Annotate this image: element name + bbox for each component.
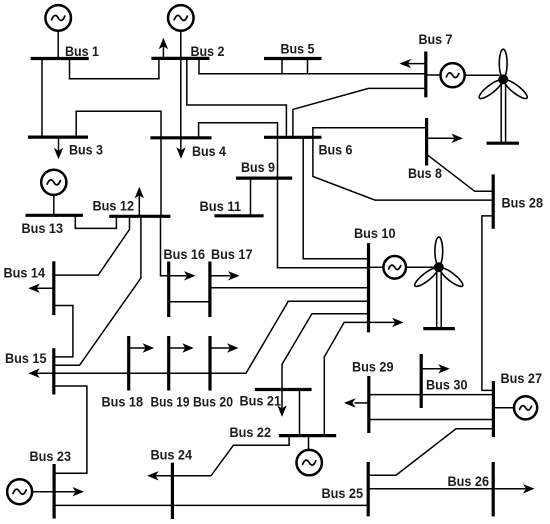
bus bar 7 — [424, 52, 427, 98]
load arrow bus 23 — [73, 487, 85, 496]
svg-text:Bus 17: Bus 17 — [211, 247, 253, 263]
wire 25-27 — [368, 429, 493, 475]
wire 12-15 — [54, 216, 141, 365]
bus bar 19 — [167, 336, 170, 391]
wire 3-4 and 4-12 — [76, 111, 161, 216]
wind turbine 2 — [413, 237, 465, 329]
svg-text:Bus 9: Bus 9 — [241, 160, 275, 176]
bus bar 18 — [127, 336, 130, 391]
wire 16-17 — [169, 301, 210, 303]
svg-text:Bus 27: Bus 27 — [501, 371, 543, 387]
bus bar 16 — [167, 262, 170, 318]
wire 15-18-19-20-10 — [37, 301, 369, 373]
svg-text:Bus 1: Bus 1 — [65, 44, 99, 60]
generator G10 — [383, 256, 406, 279]
bus bar 20 — [208, 336, 211, 391]
svg-text:Bus 8: Bus 8 — [408, 166, 442, 182]
bus bar 25 — [367, 462, 370, 516]
wire 27-28 — [482, 216, 494, 391]
wire 15-23 — [54, 386, 87, 473]
wire 10-22 — [324, 322, 395, 435]
wire bus5 stub right — [307, 59, 309, 74]
svg-text:Bus 13: Bus 13 — [22, 221, 64, 237]
load arrow bus 10 — [392, 318, 404, 327]
load arrow bus 8 — [427, 134, 463, 143]
wire G23 to bus23 load — [32, 491, 75, 493]
bus bar 22 — [279, 434, 336, 437]
load arrow bus 2 — [159, 38, 168, 59]
svg-text:Bus 19: Bus 19 — [151, 395, 190, 411]
load arrow bus 4 — [176, 147, 185, 159]
generator G22 — [297, 450, 322, 475]
svg-text:Bus 10: Bus 10 — [354, 226, 396, 242]
bus bar 13 — [26, 214, 83, 217]
wire 2-4 — [180, 31, 182, 151]
bus bar 30 — [420, 354, 423, 408]
wire 25-26 — [368, 488, 526, 490]
wire 2-5-7 trunk — [199, 58, 426, 73]
svg-text:Bus 3: Bus 3 — [69, 143, 103, 159]
bus bar 1 — [31, 57, 89, 60]
wire G13 stem — [53, 195, 55, 216]
svg-text:Bus 28: Bus 28 — [502, 196, 544, 212]
bus bar 5 — [264, 57, 322, 60]
generator G23 — [7, 479, 32, 504]
load arrow bus 18 — [129, 343, 154, 352]
svg-text:Bus 14: Bus 14 — [4, 266, 46, 282]
svg-text:Bus 16: Bus 16 — [164, 247, 206, 263]
svg-text:Bus 15: Bus 15 — [5, 351, 47, 367]
generator G2 — [168, 5, 194, 31]
svg-text:Bus 18: Bus 18 — [102, 395, 144, 411]
load arrow bus 24 — [147, 471, 159, 480]
bus bar 3 — [28, 136, 88, 139]
generator G1 — [45, 5, 71, 58]
generator G27 — [514, 396, 537, 419]
svg-text:Bus 29: Bus 29 — [352, 360, 394, 376]
wire 2-6 — [187, 58, 287, 137]
wire G10 left link — [369, 266, 384, 268]
load arrow bus 16 — [184, 271, 196, 280]
bus bar 21 — [255, 388, 312, 391]
wire 12-14 — [54, 216, 130, 275]
wire 6-28 — [313, 137, 493, 200]
load arrow bus 3 — [54, 137, 63, 159]
wire 1-2 — [70, 58, 159, 78]
wire 12-16 — [161, 216, 187, 275]
wire 21-22 — [299, 390, 301, 436]
load arrow bus 7 — [400, 59, 426, 68]
wire 6-8 — [313, 128, 427, 138]
bus bar 28 — [492, 174, 495, 228]
load arrow bus 21 — [277, 405, 286, 417]
wire G7 left link — [426, 74, 441, 76]
svg-text:Bus 24: Bus 24 — [151, 448, 193, 464]
wire 10-17 — [210, 287, 369, 289]
bus bar 8 — [425, 118, 428, 166]
bus bar 23 — [52, 464, 55, 519]
svg-text:Bus 12: Bus 12 — [93, 199, 135, 215]
bus bar 26 — [492, 462, 495, 516]
svg-text:Bus 26: Bus 26 — [448, 474, 490, 490]
svg-text:Bus 6: Bus 6 — [319, 143, 353, 159]
bus bar 2 — [151, 57, 209, 60]
wind turbine 1 — [477, 49, 529, 143]
wire 6-10 — [303, 137, 368, 258]
wire G22 stem — [308, 436, 310, 450]
bus bar 14 — [52, 261, 55, 315]
load arrow bus 26 — [523, 484, 535, 493]
wire 22-24 — [156, 436, 289, 476]
load arrow bus 19 — [169, 343, 194, 352]
load arrow bus 20 — [210, 343, 239, 352]
wire 27-29 — [369, 419, 494, 421]
bus bar 4 — [150, 136, 211, 139]
wire 29-30-27 — [369, 394, 494, 396]
load arrow bus 17 — [210, 271, 240, 280]
bus bar 11 — [215, 214, 264, 217]
wire bus5 stub left — [281, 59, 283, 74]
bus bar 12 — [109, 215, 170, 218]
wire 23-24-25 — [54, 504, 368, 506]
svg-text:Bus 2: Bus 2 — [191, 44, 225, 60]
svg-text:Bus 7: Bus 7 — [419, 32, 453, 48]
svg-text:Bus 25: Bus 25 — [322, 486, 364, 502]
wire 4-6 — [199, 123, 278, 138]
load arrow bus 14 — [28, 284, 54, 293]
bus bar 27 — [492, 381, 495, 437]
bus bar 6 — [264, 136, 322, 139]
load arrow bus 15 — [28, 369, 40, 378]
svg-text:Bus 23: Bus 23 — [30, 449, 72, 465]
svg-text:Bus 5: Bus 5 — [281, 42, 315, 58]
wire 14-15 — [54, 306, 73, 357]
generator G7 — [441, 63, 465, 87]
wire 6-7 — [293, 88, 426, 137]
generator G13 — [41, 170, 66, 195]
svg-text:Bus 30: Bus 30 — [426, 378, 468, 394]
wire 1-3 — [41, 59, 43, 138]
wire 6-9 and 9-10 — [278, 137, 369, 267]
wire G27 link — [493, 407, 514, 409]
wire G7 to wind turbine 1 — [465, 74, 500, 76]
load arrow bus 30 — [421, 364, 450, 373]
load arrow bus 12 — [135, 187, 144, 216]
bus bar 15 — [52, 348, 55, 394]
wire 9-11 — [250, 178, 252, 216]
svg-text:Bus 11: Bus 11 — [200, 199, 242, 215]
load arrow bus 29 — [344, 398, 369, 407]
bus bar 9 — [236, 177, 292, 180]
bus bar 17 — [208, 262, 211, 318]
wire 8-28 — [427, 154, 494, 191]
wire G10 to wind turbine 2 — [406, 266, 436, 268]
svg-text:Bus 4: Bus 4 — [192, 144, 226, 160]
bus bar 24 — [171, 463, 174, 519]
bus bar 10 — [367, 243, 370, 332]
svg-text:Bus 22: Bus 22 — [230, 425, 272, 441]
svg-text:Bus 20: Bus 20 — [193, 395, 233, 411]
wire 10-21 — [282, 314, 369, 408]
svg-text:Bus 21: Bus 21 — [240, 394, 282, 410]
bus bar 29 — [367, 376, 370, 433]
wire 12-13 — [75, 215, 116, 228]
